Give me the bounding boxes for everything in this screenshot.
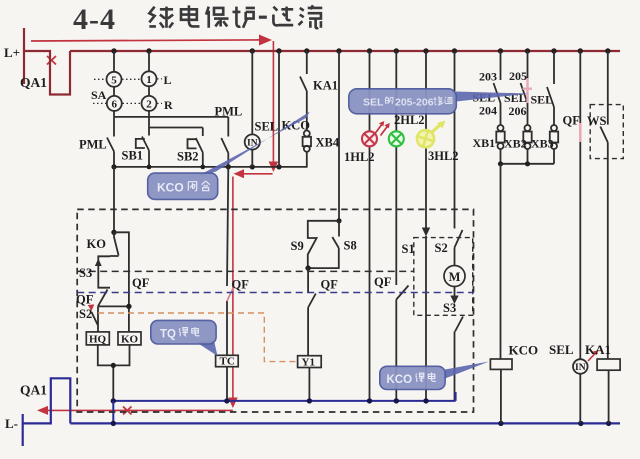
- callout TQ energized box: [151, 320, 216, 344]
- svg-text:S9: S9: [291, 239, 304, 253]
- lamp 2HL2 green: [389, 131, 404, 146]
- svg-text:HQ: HQ: [89, 334, 107, 346]
- breaker QA1 bottom (plug bump): [23, 378, 71, 423]
- actuator S3 bracket: [98, 256, 110, 287]
- node dots on junction row: [111, 164, 281, 169]
- svg-text:QF: QF: [132, 276, 150, 290]
- SA dotted linkage rows: [93, 79, 162, 104]
- svg-text:KA1: KA1: [585, 342, 611, 357]
- svg-text:XB4: XB4: [316, 136, 340, 150]
- contact QF left chain: [98, 290, 108, 307]
- dashed WS box: [590, 105, 623, 159]
- small dashed box S1 S2 M: [414, 238, 473, 316]
- terminal L+ lead: [23, 28, 25, 84]
- contact SEL 203-204 with test link XB1: [494, 51, 505, 164]
- contact KO: [110, 232, 119, 256]
- dashed linkage line QF navy: [77, 292, 473, 294]
- wire down to KCO coil: [500, 164, 502, 424]
- wire L- bottom bus: [70, 422, 620, 424]
- title hanzi 继电保护-过流: [149, 5, 322, 28]
- red arrowhead down at bottom bus: [228, 398, 238, 409]
- arrowhead S3 up: [95, 259, 102, 267]
- breaker QA1 top (plug dip): [24, 51, 70, 95]
- pushbutton SB1: [136, 128, 149, 167]
- node dot tie: [126, 304, 131, 309]
- red arrowhead at S2: [88, 304, 95, 311]
- contact SEL 205-206 with test link XB2: [521, 51, 532, 164]
- terminal L- lead: [22, 414, 24, 446]
- svg-text:QF: QF: [321, 278, 339, 292]
- svg-text:KCO: KCO: [157, 181, 184, 195]
- svg-text:SEL: SEL: [549, 342, 574, 357]
- wire below HQ/KO boxes: [98, 345, 130, 401]
- wire XB junction row: [501, 163, 555, 165]
- svg-text:S3: S3: [443, 301, 456, 315]
- branch 2HL2 lamp column with QF: [396, 51, 408, 401]
- wire red highlight bottom return: [46, 409, 233, 411]
- title text 4-4: [73, 3, 116, 36]
- contact PML right: [221, 117, 228, 167]
- lamp 1HL2 red: [362, 131, 377, 146]
- red arrows at 1HL2: [375, 124, 388, 136]
- svg-text:PML: PML: [215, 105, 243, 119]
- lamp 3HL2 yellow: [414, 127, 437, 150]
- relay box HQ: [86, 332, 109, 345]
- svg-text:SEL: SEL: [531, 93, 554, 107]
- wire red highlight down through TC: [232, 177, 234, 402]
- relay box KO: [118, 332, 141, 345]
- dashed orange TQ path: [98, 313, 298, 362]
- svg-text:1: 1: [146, 74, 152, 86]
- branch S2 motor S3 column: [455, 51, 464, 401]
- svg-text:L-: L-: [5, 416, 18, 431]
- contact SEL third with test link XB3: [547, 51, 558, 164]
- wire node6 to parallel row: [114, 116, 228, 118]
- callout KCO energized pointer: [445, 362, 489, 379]
- contact S8: [308, 221, 339, 268]
- svg-text:S3: S3: [79, 266, 92, 280]
- contact QF on Y1 branch: [308, 268, 316, 356]
- svg-text:S8: S8: [344, 239, 357, 253]
- coil KA1: [597, 359, 620, 370]
- svg-text:206: 206: [509, 104, 527, 118]
- svg-text:S2: S2: [435, 241, 448, 255]
- wire junction row y167: [114, 166, 308, 168]
- wire below KA1 coil: [608, 370, 610, 423]
- svg-text:205: 205: [509, 69, 527, 83]
- svg-text:205-206: 205-206: [395, 97, 434, 109]
- callout KCO closed pointer: [196, 112, 310, 178]
- svg-text:SB1: SB1: [122, 149, 144, 163]
- arrowhead S3 down: [450, 296, 458, 305]
- coil box TC: [216, 355, 239, 366]
- pushbutton SB2: [188, 128, 203, 167]
- svg-text:QA1: QA1: [20, 75, 47, 90]
- wire L+ top bus: [70, 50, 620, 52]
- svg-text:QA1: QA1: [20, 383, 47, 398]
- relay target SEL IN bottom: [573, 359, 588, 374]
- node dots navy row: [111, 398, 429, 403]
- big dashed enclosure box: [77, 209, 473, 412]
- branch TC with QF contact: [227, 167, 228, 401]
- node dot S9-S8 join: [305, 265, 310, 270]
- svg-text:SEL: SEL: [363, 97, 384, 109]
- svg-text:KO: KO: [121, 334, 139, 346]
- svg-text:KCO: KCO: [509, 343, 539, 358]
- svg-text:3HL2: 3HL2: [428, 149, 459, 163]
- node dot S8/S9 split: [336, 218, 341, 223]
- wire tie S2 to KO branch: [98, 305, 129, 307]
- contact QF on TC branch (pink): [227, 287, 234, 302]
- node dots bottom bus: [111, 421, 612, 426]
- arrowhead S1 down: [422, 228, 430, 237]
- wire navy collector row: [113, 392, 455, 401]
- red arrowhead left at QA1 bottom: [37, 406, 48, 415]
- contact KA1 with test link XB4: [300, 51, 311, 167]
- wire red highlight horizontal to TC branch: [240, 173, 273, 175]
- wire navy link down: [112, 401, 114, 424]
- svg-text:Y1: Y1: [302, 357, 315, 369]
- node dots on top bus: [111, 48, 610, 53]
- callout KCO closed box: [148, 173, 218, 199]
- svg-text:QF: QF: [374, 275, 392, 289]
- svg-text:2: 2: [146, 98, 152, 110]
- contact PML left: [107, 117, 114, 167]
- motor M: [444, 266, 465, 287]
- svg-text:IN: IN: [575, 363, 586, 373]
- branch QF to SEL IN bottom: [579, 51, 581, 423]
- svg-text:S1: S1: [402, 242, 415, 256]
- svg-text:5: 5: [111, 74, 117, 86]
- svg-text:S2: S2: [79, 307, 92, 321]
- svg-text:XB2: XB2: [504, 137, 527, 151]
- contact S9: [308, 221, 339, 268]
- svg-text:L+: L+: [4, 45, 20, 60]
- svg-text:1HL2: 1HL2: [344, 150, 375, 164]
- branch S8 column from bus: [338, 51, 340, 221]
- callout SEL 205-206 box: [349, 89, 457, 114]
- callout TQ energized pointer: [196, 341, 218, 357]
- red X mark on bottom link: [123, 407, 132, 415]
- wire Y1 to navy row: [308, 368, 310, 401]
- svg-text:SEL: SEL: [255, 120, 279, 134]
- svg-text:WS: WS: [587, 114, 607, 128]
- dashed linkage line black: [77, 270, 414, 272]
- wire red highlight arrow under title: [31, 40, 261, 41]
- red arrowhead right (top highlight): [259, 35, 272, 46]
- svg-text:PML: PML: [79, 138, 107, 152]
- svg-text:QF: QF: [563, 114, 581, 128]
- wire KCO column top: [278, 51, 280, 167]
- wire node2 to SB2 row: [149, 127, 203, 129]
- svg-text:204: 204: [479, 104, 497, 118]
- red X mark on QA1 top: [47, 56, 56, 65]
- wire red highlight down SEL column: [272, 41, 274, 166]
- svg-text:QF: QF: [232, 278, 250, 292]
- svg-text:203: 203: [479, 70, 497, 84]
- node dots XB row: [498, 161, 530, 166]
- svg-text:4-4: 4-4: [73, 3, 116, 36]
- wire left chain into box: [113, 167, 115, 232]
- svg-text:SA: SA: [91, 88, 107, 102]
- svg-text:KO: KO: [87, 237, 107, 251]
- node dot below boxes: [111, 363, 116, 368]
- svg-text:SB2: SB2: [177, 150, 199, 164]
- red arrowhead left at TC branch: [234, 169, 245, 178]
- svg-text:R: R: [164, 98, 173, 112]
- red arrow at KA1 label: [588, 353, 596, 362]
- contact QF closed mark (pink): [579, 123, 582, 142]
- svg-text:L: L: [164, 73, 172, 87]
- svg-text:XB3: XB3: [531, 137, 554, 151]
- svg-text:XB1: XB1: [473, 136, 496, 150]
- SA terminal numbers: [111, 74, 152, 111]
- wire KO branch 2: [114, 232, 129, 332]
- svg-text:2HL2: 2HL2: [394, 113, 425, 127]
- callout KCO energized box: [380, 366, 445, 389]
- switch SA contacts 5-6 and 1-2: [107, 51, 157, 128]
- svg-text:TC: TC: [220, 356, 235, 368]
- svg-text:TQ: TQ: [160, 329, 176, 341]
- relay target SEL IN top: [245, 51, 260, 167]
- svg-text:M: M: [449, 270, 461, 284]
- svg-text:KA1: KA1: [313, 79, 338, 93]
- node A split KO branches: [111, 230, 116, 235]
- contact S2: [92, 306, 99, 332]
- svg-text:6: 6: [112, 98, 118, 110]
- branch S1 column: [425, 51, 427, 401]
- red arrowhead down to junction: [269, 162, 279, 173]
- svg-text:KCO: KCO: [387, 374, 413, 386]
- coil KCO: [490, 359, 512, 369]
- svg-text:QF: QF: [76, 293, 94, 307]
- contact WS: [600, 51, 608, 359]
- pink highlight SEL 205-206 closed: [523, 78, 533, 103]
- branch 1HL2 lamp column: [369, 51, 371, 401]
- yellow arrow at 3HL2: [431, 124, 441, 133]
- coil box Y1: [298, 356, 322, 368]
- callout SEL 205-206 pointer: [456, 92, 529, 102]
